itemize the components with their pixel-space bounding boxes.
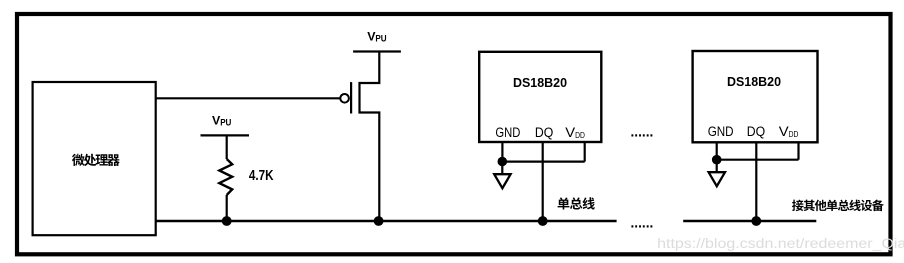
svg-text:V: V (779, 124, 789, 139)
svg-text:V: V (565, 125, 575, 140)
svg-text:DS18B20: DS18B20 (727, 75, 781, 89)
svg-text:DQ: DQ (747, 124, 765, 139)
svg-text:https://blog.csdn.net/redeemer: https://blog.csdn.net/redeemer_Qian (657, 236, 904, 252)
svg-text:DQ: DQ (535, 125, 553, 140)
svg-text:DS18B20: DS18B20 (513, 76, 567, 90)
svg-text:DD: DD (789, 129, 799, 139)
svg-text:......: ...... (631, 216, 654, 232)
svg-text:PU: PU (375, 34, 386, 44)
svg-text:4.7K: 4.7K (249, 168, 274, 184)
svg-text:GND: GND (495, 125, 520, 140)
svg-text:GND: GND (708, 124, 734, 139)
svg-text:PU: PU (220, 118, 231, 128)
svg-text:DD: DD (575, 130, 585, 140)
svg-text:......: ...... (631, 125, 654, 141)
